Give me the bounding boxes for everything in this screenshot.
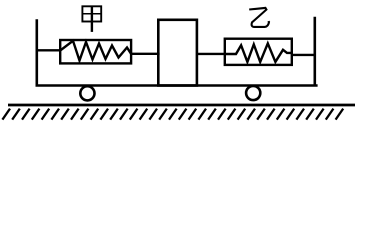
wire spring box yi to wall xyxy=(292,54,315,56)
central block xyxy=(158,20,197,86)
wire wall to spring box jia xyxy=(37,49,61,51)
spring box yi xyxy=(225,39,292,65)
cart right wall xyxy=(313,17,316,87)
wire block to spring box yi xyxy=(197,53,225,55)
ground hatching xyxy=(2,109,343,120)
ground line xyxy=(8,104,355,107)
spring box jia xyxy=(60,40,131,63)
wire spring box jia to block xyxy=(131,53,160,55)
spring yi zigzag xyxy=(225,43,292,62)
cart bottom xyxy=(36,84,318,87)
wheel right xyxy=(246,86,260,100)
label jia (甲) xyxy=(82,6,101,32)
wheel left xyxy=(80,86,94,100)
cart left wall xyxy=(35,19,38,86)
spring jia zigzag xyxy=(60,41,131,61)
label yi (乙) xyxy=(249,8,270,27)
